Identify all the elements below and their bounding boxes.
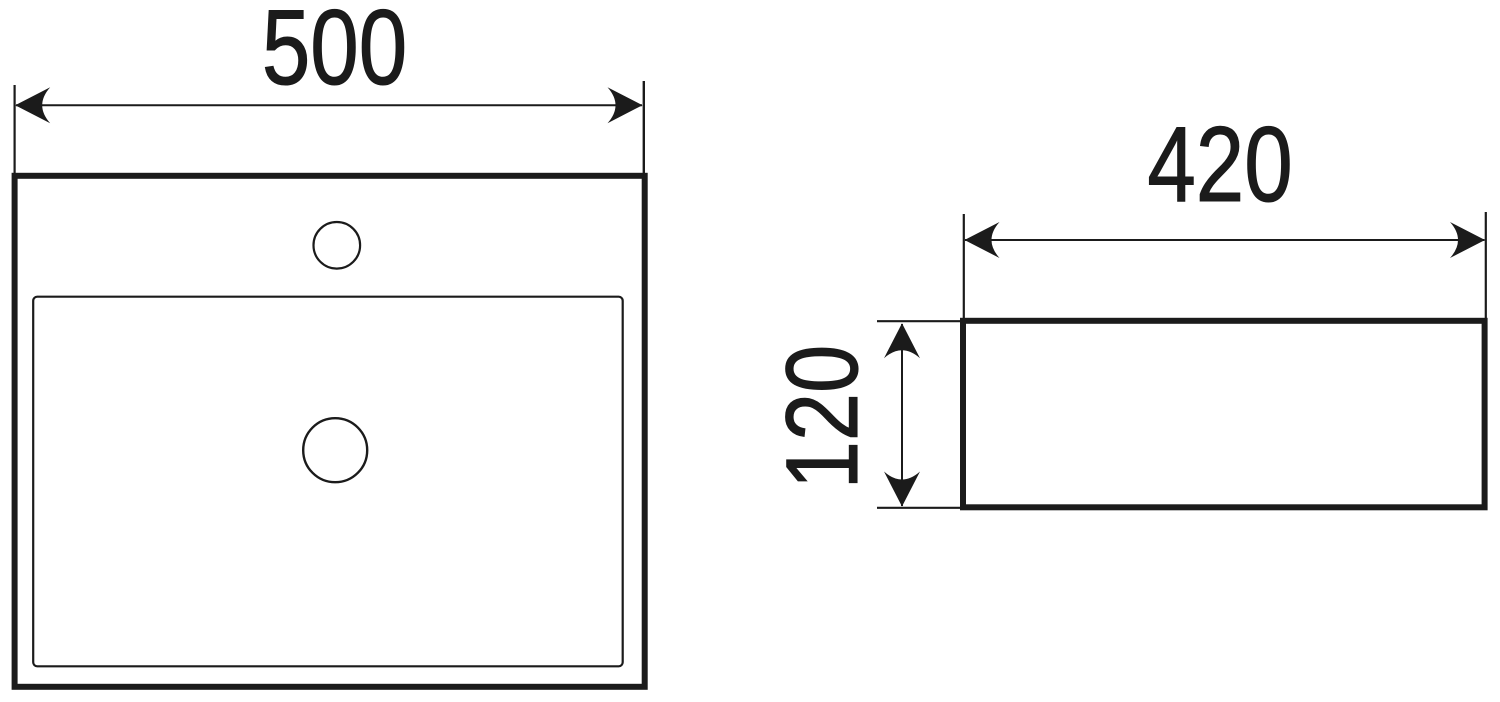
faucet hole circle — [314, 222, 361, 269]
dimension 420: right extension line — [1485, 212, 1487, 318]
dimension 120: bottom arrowhead — [884, 472, 920, 507]
dimension 500: right arrowhead — [608, 87, 643, 123]
svg-text:500: 500 — [262, 0, 407, 107]
dimension 120: bottom extension line — [877, 507, 962, 509]
basin outer rim rectangle — [15, 176, 645, 687]
dimension 500: dimension line — [16, 104, 642, 106]
basin inner bowl rectangle — [33, 297, 623, 667]
dimension 120: top arrowhead — [884, 323, 920, 358]
dimension 420: right arrowhead — [1450, 222, 1485, 258]
dimension 420: left extension line — [963, 214, 965, 318]
svg-text:420: 420 — [1147, 105, 1292, 224]
svg-text:120: 120 — [765, 345, 880, 489]
dimension 120: top extension line — [877, 320, 962, 322]
side view body rectangle — [963, 321, 1485, 508]
dimension 500: left arrowhead — [15, 87, 50, 123]
dimension 420: dimension line — [965, 239, 1485, 241]
dimension 120: dimension line — [901, 324, 903, 506]
dimension 500: left extension line — [14, 85, 16, 173]
dimension 420: left arrowhead — [965, 222, 1000, 258]
drain hole circle — [303, 418, 367, 482]
dimension 500: right extension line — [643, 81, 645, 173]
